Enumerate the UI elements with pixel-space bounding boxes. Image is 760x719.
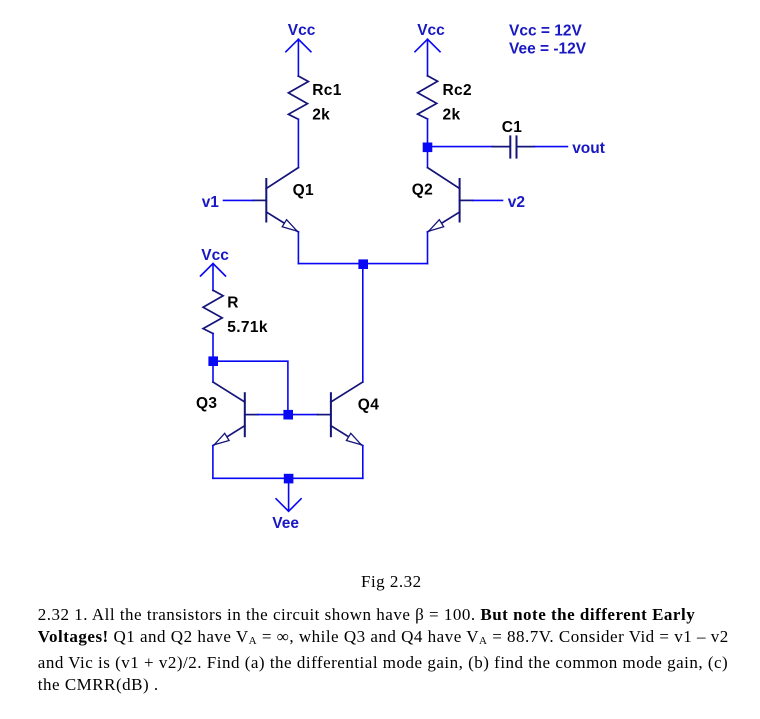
resistor R (203, 290, 223, 333)
wire Q3 emitter down (212, 446, 214, 479)
power flag Vcc (Rc2 branch) (415, 39, 440, 76)
wire bottom emitter rail (213, 477, 363, 479)
junction emitter node (358, 259, 368, 269)
capacitor C1 (493, 136, 535, 157)
svg-text:Vcc = 12V: Vcc = 12V (509, 22, 582, 39)
svg-text:2k: 2k (312, 106, 330, 123)
power flag Vcc (Rc1 branch) (286, 39, 311, 76)
svg-text:vout: vout (572, 140, 605, 157)
transistor Q4 (318, 382, 363, 446)
resistor Rc1 (288, 76, 308, 119)
svg-text:Vee: Vee (272, 515, 299, 532)
svg-text:v2: v2 (508, 194, 525, 211)
wire node to base rail (213, 361, 288, 410)
transistor Q2 (428, 168, 473, 232)
transistor Q3 (213, 382, 258, 446)
problem statement paragraph (38, 604, 753, 696)
junction Q2 collector node (423, 143, 433, 153)
transistor Q1 (253, 168, 298, 232)
svg-text:Vcc: Vcc (288, 22, 316, 39)
wire Rc2 to junction (427, 119, 429, 143)
wire C1 to vout (534, 146, 567, 148)
svg-text:Vcc: Vcc (417, 22, 445, 39)
svg-text:C1: C1 (502, 119, 523, 136)
wire Rc1 to Q1 collector (297, 119, 299, 167)
wire v1 to Q1 base (224, 199, 254, 201)
caption Fig 2.32 (361, 572, 422, 592)
junction Vee node (284, 474, 294, 484)
power flag Vee (276, 478, 301, 511)
wire junction to C1 (432, 146, 492, 148)
svg-text:Q1: Q1 (293, 182, 314, 199)
svg-text:v1: v1 (202, 194, 220, 211)
wire Q1 emitter down (297, 232, 299, 264)
wire Q3-Q4 base rail (258, 414, 318, 416)
junction base rail node (283, 410, 293, 420)
svg-text:Vee = -12V: Vee = -12V (509, 40, 587, 57)
svg-text:Rc2: Rc2 (443, 82, 472, 99)
wire tail node to Q4 collector (362, 264, 364, 382)
svg-text:2k: 2k (443, 106, 461, 123)
svg-text:R: R (227, 294, 239, 311)
svg-text:5.71k: 5.71k (227, 319, 268, 336)
power flag Vcc (mirror branch) (201, 264, 226, 291)
wire junction to Q2 collector (427, 152, 429, 168)
svg-text:Q3: Q3 (196, 395, 217, 412)
wire node to Q3 collector (212, 366, 214, 382)
wire R to node (212, 334, 214, 357)
junction R / Q3 collector node (208, 356, 218, 366)
wire emitter rail (298, 263, 427, 265)
resistor Rc2 (418, 76, 438, 119)
svg-text:Rc1: Rc1 (312, 82, 342, 99)
svg-text:Q2: Q2 (412, 182, 433, 199)
svg-text:Q4: Q4 (358, 396, 379, 413)
wire Q2 emitter down (427, 232, 429, 264)
wire Q2 base to v2 (473, 199, 503, 201)
wire Q4 emitter down (362, 446, 364, 479)
svg-text:Vcc: Vcc (201, 247, 229, 264)
